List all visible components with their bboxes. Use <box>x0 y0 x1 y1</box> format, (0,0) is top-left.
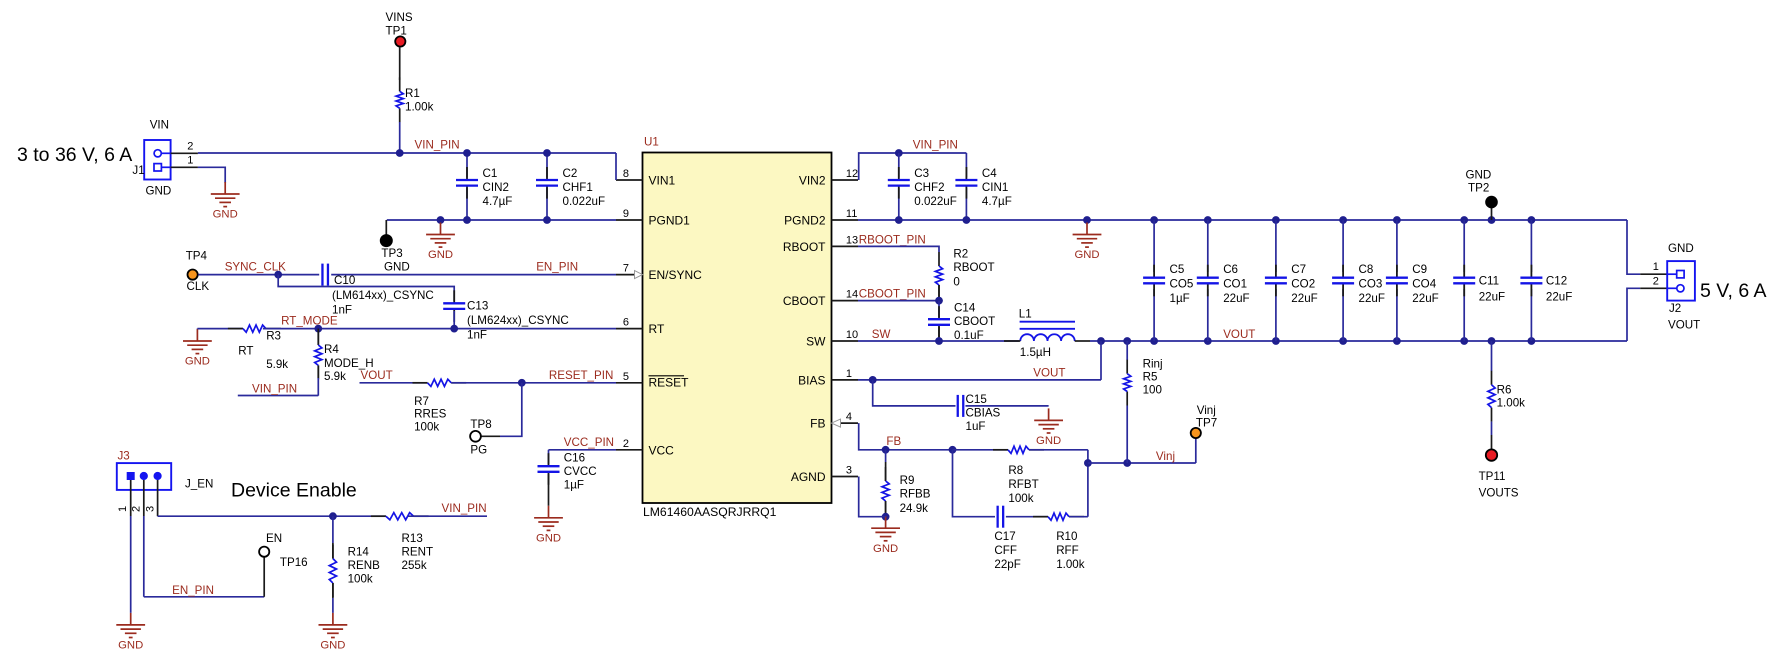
svg-text:1.00k: 1.00k <box>405 101 434 114</box>
svg-text:RFBT: RFBT <box>1008 478 1038 491</box>
svg-text:10: 10 <box>846 329 858 341</box>
svg-text:R3: R3 <box>266 330 281 343</box>
svg-text:3 to 36 V, 6 A: 3 to 36 V, 6 A <box>17 144 132 166</box>
svg-text:PGND1: PGND1 <box>649 214 691 228</box>
svg-text:GND: GND <box>1668 242 1694 255</box>
svg-text:TP16: TP16 <box>280 556 308 569</box>
svg-text:7: 7 <box>623 263 629 275</box>
svg-text:C9: C9 <box>1412 263 1427 276</box>
svg-text:VINS: VINS <box>386 11 413 24</box>
svg-text:CLK: CLK <box>187 280 210 293</box>
svg-text:5 V, 6 A: 5 V, 6 A <box>1700 280 1767 302</box>
svg-text:24.9k: 24.9k <box>900 502 929 515</box>
svg-text:RBOOT: RBOOT <box>953 261 994 274</box>
svg-text:C14: C14 <box>954 302 976 315</box>
svg-text:22pF: 22pF <box>994 558 1020 571</box>
svg-text:RENB: RENB <box>348 559 380 572</box>
svg-text:GND: GND <box>213 209 238 221</box>
svg-text:PGND2: PGND2 <box>784 214 826 228</box>
svg-text:1: 1 <box>187 155 193 167</box>
svg-text:TP1: TP1 <box>386 25 407 38</box>
svg-text:R7: R7 <box>414 395 429 408</box>
svg-text:C2: C2 <box>563 167 578 180</box>
svg-text:R5: R5 <box>1143 371 1158 384</box>
svg-text:R13: R13 <box>402 532 423 545</box>
svg-text:AGND: AGND <box>791 470 826 484</box>
svg-text:1.5µH: 1.5µH <box>1020 346 1051 359</box>
svg-text:R2: R2 <box>953 248 968 261</box>
svg-text:VIN_PIN: VIN_PIN <box>442 502 487 515</box>
svg-text:J2: J2 <box>1669 302 1681 315</box>
svg-text:VIN_PIN: VIN_PIN <box>252 383 297 396</box>
svg-text:100k: 100k <box>1008 492 1033 505</box>
svg-text:C7: C7 <box>1291 263 1306 276</box>
svg-text:CBOOT: CBOOT <box>783 294 826 308</box>
svg-text:PG: PG <box>470 443 487 456</box>
svg-text:R9: R9 <box>900 474 915 487</box>
svg-text:100: 100 <box>1143 384 1162 397</box>
svg-text:RESET_PIN: RESET_PIN <box>549 369 613 382</box>
svg-text:J3: J3 <box>118 450 130 463</box>
svg-text:R1: R1 <box>405 87 420 100</box>
svg-text:RRES: RRES <box>414 408 446 421</box>
svg-text:VIN: VIN <box>150 119 169 132</box>
svg-text:C16: C16 <box>564 452 585 465</box>
svg-text:J1: J1 <box>132 164 144 177</box>
svg-text:14: 14 <box>846 289 858 301</box>
svg-text:255k: 255k <box>402 559 427 572</box>
svg-text:2: 2 <box>187 140 193 152</box>
svg-text:CIN2: CIN2 <box>483 181 509 194</box>
svg-text:4.7µF: 4.7µF <box>982 195 1012 208</box>
svg-text:C12: C12 <box>1546 275 1567 288</box>
svg-text:12: 12 <box>846 168 858 180</box>
svg-text:0.022uF: 0.022uF <box>914 195 957 208</box>
svg-text:GND: GND <box>118 640 143 652</box>
svg-text:5: 5 <box>623 371 629 383</box>
svg-text:C4: C4 <box>982 167 997 180</box>
svg-text:CFF: CFF <box>994 544 1017 557</box>
svg-text:CO3: CO3 <box>1359 278 1383 291</box>
svg-text:1nF: 1nF <box>467 329 487 342</box>
svg-text:R8: R8 <box>1008 464 1023 477</box>
svg-text:22uF: 22uF <box>1412 292 1438 305</box>
svg-text:GND: GND <box>320 640 345 652</box>
svg-text:TP11: TP11 <box>1479 470 1506 483</box>
svg-text:C11: C11 <box>1479 275 1499 288</box>
svg-text:GND: GND <box>384 261 410 274</box>
svg-text:EN_PIN: EN_PIN <box>172 584 214 597</box>
svg-text:BIAS: BIAS <box>798 373 825 387</box>
svg-text:FB: FB <box>810 417 825 431</box>
svg-text:GND: GND <box>1074 249 1099 261</box>
svg-text:GND: GND <box>1036 435 1061 447</box>
svg-text:RBOOT: RBOOT <box>783 240 826 254</box>
svg-text:C15: C15 <box>966 393 987 406</box>
svg-text:13: 13 <box>846 234 858 246</box>
svg-text:TP2: TP2 <box>1468 182 1489 195</box>
svg-text:VCC: VCC <box>649 443 675 457</box>
svg-text:FB: FB <box>886 435 901 448</box>
svg-text:EN: EN <box>266 532 282 545</box>
svg-text:LM61460AASQRJRRQ1: LM61460AASQRJRRQ1 <box>643 505 777 519</box>
svg-text:TP4: TP4 <box>186 250 208 263</box>
svg-text:SW: SW <box>806 335 826 349</box>
svg-text:U1: U1 <box>644 136 659 149</box>
svg-text:0: 0 <box>953 276 959 289</box>
svg-text:2: 2 <box>623 438 629 450</box>
svg-text:22uF: 22uF <box>1546 291 1572 304</box>
svg-text:5.9k: 5.9k <box>266 358 288 371</box>
svg-text:VIN1: VIN1 <box>649 174 676 188</box>
svg-text:CO1: CO1 <box>1223 278 1247 291</box>
svg-text:100k: 100k <box>414 420 439 433</box>
svg-text:TP7: TP7 <box>1196 417 1217 430</box>
svg-text:1µF: 1µF <box>564 479 584 492</box>
svg-text:Rinj: Rinj <box>1143 358 1163 371</box>
svg-text:4.7µF: 4.7µF <box>483 195 513 208</box>
svg-text:5.9k: 5.9k <box>324 370 346 383</box>
svg-text:9: 9 <box>623 208 629 220</box>
svg-text:VOUT: VOUT <box>1668 319 1700 332</box>
svg-text:1uF: 1uF <box>966 420 986 433</box>
svg-text:L1: L1 <box>1019 307 1032 320</box>
svg-text:RT_MODE: RT_MODE <box>281 315 338 328</box>
svg-text:C1: C1 <box>483 167 498 180</box>
svg-text:CBIAS: CBIAS <box>966 407 1001 420</box>
svg-text:RBOOT_PIN: RBOOT_PIN <box>859 234 926 247</box>
svg-text:1: 1 <box>117 506 129 512</box>
svg-text:RENT: RENT <box>402 546 434 559</box>
svg-text:SW: SW <box>872 328 891 341</box>
svg-text:2: 2 <box>131 506 143 512</box>
svg-text:RT: RT <box>238 345 253 358</box>
svg-text:R4: R4 <box>324 343 339 356</box>
svg-text:CO5: CO5 <box>1170 278 1194 291</box>
svg-text:GND: GND <box>146 185 172 198</box>
svg-text:4: 4 <box>846 411 852 423</box>
svg-text:8: 8 <box>623 168 629 180</box>
svg-text:J_EN: J_EN <box>185 478 213 491</box>
svg-text:GND: GND <box>185 356 210 368</box>
svg-text:100k: 100k <box>348 573 373 586</box>
svg-text:VIN2: VIN2 <box>799 174 826 188</box>
svg-text:22uF: 22uF <box>1291 292 1317 305</box>
svg-text:GND: GND <box>1466 169 1492 182</box>
svg-text:C10: C10 <box>334 274 355 287</box>
svg-text:CBOOT_PIN: CBOOT_PIN <box>859 288 926 301</box>
svg-text:CHF1: CHF1 <box>563 181 593 194</box>
svg-text:22uF: 22uF <box>1359 292 1385 305</box>
svg-text:VOUT: VOUT <box>1223 328 1255 341</box>
svg-text:CO2: CO2 <box>1291 278 1315 291</box>
svg-text:Vinj: Vinj <box>1156 450 1175 463</box>
svg-text:CHF2: CHF2 <box>914 181 944 194</box>
svg-text:GND: GND <box>428 249 453 261</box>
svg-text:C3: C3 <box>914 167 929 180</box>
svg-text:VCC_PIN: VCC_PIN <box>564 436 614 449</box>
svg-text:CVCC: CVCC <box>564 465 597 478</box>
svg-text:VOUT: VOUT <box>1033 367 1065 380</box>
svg-text:C13: C13 <box>467 300 488 313</box>
svg-text:VOUT: VOUT <box>361 369 393 382</box>
svg-text:RESET: RESET <box>649 375 690 389</box>
svg-text:EN/SYNC: EN/SYNC <box>649 268 703 282</box>
svg-text:3: 3 <box>846 465 852 477</box>
svg-text:0.022uF: 0.022uF <box>563 195 606 208</box>
svg-text:22uF: 22uF <box>1223 292 1249 305</box>
svg-text:VIN_PIN: VIN_PIN <box>913 139 958 152</box>
svg-text:C17: C17 <box>994 530 1015 543</box>
svg-text:R10: R10 <box>1056 530 1077 543</box>
svg-text:22uF: 22uF <box>1479 291 1505 304</box>
svg-text:1µF: 1µF <box>1170 292 1190 305</box>
svg-text:RFF: RFF <box>1056 544 1079 557</box>
svg-text:CBOOT: CBOOT <box>954 315 995 328</box>
svg-text:RFBB: RFBB <box>900 488 931 501</box>
svg-text:R14: R14 <box>348 546 370 559</box>
svg-text:1: 1 <box>1653 261 1659 273</box>
svg-text:1.00k: 1.00k <box>1497 397 1526 410</box>
svg-text:GND: GND <box>873 543 898 555</box>
svg-text:11: 11 <box>846 208 857 220</box>
svg-text:1: 1 <box>846 368 852 380</box>
svg-text:Vinj: Vinj <box>1197 404 1216 417</box>
svg-text:VIN_PIN: VIN_PIN <box>415 139 460 152</box>
svg-text:1.00k: 1.00k <box>1056 558 1085 571</box>
svg-text:(LM614xx)_CSYNC: (LM614xx)_CSYNC <box>332 289 434 302</box>
svg-text:RT: RT <box>649 322 665 336</box>
svg-text:Device Enable: Device Enable <box>231 480 357 502</box>
svg-text:2: 2 <box>1653 275 1659 287</box>
svg-text:(LM624xx)_CSYNC: (LM624xx)_CSYNC <box>467 314 569 327</box>
svg-text:C8: C8 <box>1359 263 1374 276</box>
svg-text:3: 3 <box>144 506 156 512</box>
svg-text:TP3: TP3 <box>381 247 402 260</box>
svg-text:CO4: CO4 <box>1412 278 1436 291</box>
svg-text:TP8: TP8 <box>470 418 491 431</box>
svg-text:C5: C5 <box>1170 263 1185 276</box>
svg-text:VOUTS: VOUTS <box>1479 487 1519 500</box>
svg-text:GND: GND <box>536 533 561 545</box>
svg-text:C6: C6 <box>1223 263 1238 276</box>
svg-text:R6: R6 <box>1497 383 1512 396</box>
svg-text:0.1uF: 0.1uF <box>954 329 984 342</box>
svg-text:6: 6 <box>623 317 629 329</box>
svg-text:CIN1: CIN1 <box>982 181 1008 194</box>
svg-text:EN_PIN: EN_PIN <box>536 261 578 274</box>
